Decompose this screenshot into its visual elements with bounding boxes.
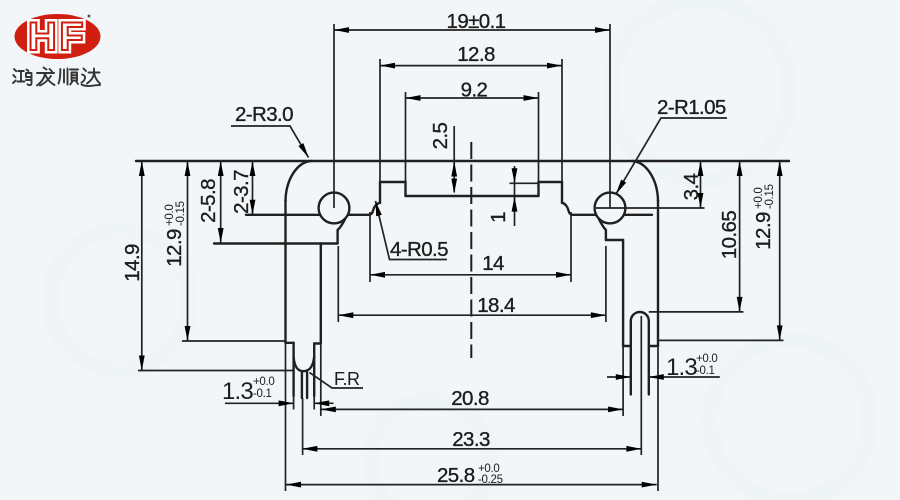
channel mouth right flare [562,203,572,215]
svg-text:1: 1 [487,212,510,223]
svg-text:4-R0.5: 4-R0.5 [390,238,448,261]
svg-text:18.4: 18.4 [477,294,515,317]
10.65 ref [649,311,744,313]
right outer wall [657,200,659,346]
dimension 2-5.8 [197,161,224,243]
left leg inner ext to 20.8 [320,344,322,417]
right boss column step [606,239,623,241]
12.9 right ref [658,339,784,341]
svg-text:2-R1.05: 2-R1.05 [657,96,726,119]
19 ext left to boss center [333,24,335,208]
right leg inner ext to 20.8 [622,346,624,416]
logo ellipse [15,14,101,59]
right leg inner face [622,240,624,346]
dimension 1 [487,166,517,226]
18.4 ext right [605,246,607,322]
svg-text:2-5.8: 2-5.8 [197,179,220,223]
dimension 14 [370,252,571,278]
left boss neck [338,219,345,243]
channel mouth left flare [370,203,380,215]
dimension 9.2 [406,79,539,102]
14 ext left [369,212,371,282]
left foot outer wall [292,343,294,396]
svg-text:2.5: 2.5 [429,122,452,149]
svg-text:2-3.7: 2-3.7 [230,170,253,214]
center dashed line [470,142,472,358]
9.2 ext right [538,92,540,195]
19 ext right to boss center [609,24,611,208]
channel right wall [561,182,563,203]
left boss circle [319,193,350,224]
right leg inner step [623,345,631,347]
right foot slot with dome [631,312,649,395]
3.4 ref [596,207,705,209]
svg-text:F.R: F.R [334,369,360,389]
svg-text:14.9: 14.9 [121,244,144,282]
12.9 left ref [182,340,286,342]
drawing lines [136,161,789,398]
svg-text:2-R3.0: 2-R3.0 [235,103,293,126]
svg-text:-0.15: -0.15 [175,201,187,226]
9.2 ext left [405,92,407,195]
dimension 1.3 right [607,353,720,381]
dimension 2.5 [429,122,457,193]
svg-text:-0.15: -0.15 [764,184,776,209]
dimension 1.3 left [222,376,334,406]
left surface 2-3.7 level [246,214,320,216]
left surface right of boss [348,214,370,216]
channel left ledge [380,182,406,196]
svg-text:-0.25: -0.25 [478,474,503,486]
18.4 ext left [337,246,339,322]
dimension 18.4 [338,294,606,318]
dimension 3.4 [680,161,703,208]
left foot walls ext to 1.3 dim [294,396,315,410]
svg-text:12.9: 12.9 [163,229,186,267]
right surface to corner [624,214,652,216]
14.9 ref foot bottom [138,370,294,372]
right leg outer step [649,345,658,347]
right boss neck [599,219,606,240]
1 dim ledge ext [510,182,539,184]
svg-text:+0.0: +0.0 [253,376,275,388]
label 4-R0.5 [373,200,448,261]
left outer wall [284,200,286,343]
left foot inner step [314,342,321,344]
label F.R [310,369,364,389]
dimension 10.65 [718,161,742,312]
14 ext right [570,212,572,282]
label 2-R1.05 [614,96,727,195]
svg-text:23.3: 23.3 [452,428,490,451]
right slot center ext to 23.3 [640,316,642,455]
left foot outer step [286,342,294,344]
dimension 20.8 [321,387,623,412]
svg-text:20.8: 20.8 [451,387,489,410]
char fa [37,68,55,86]
left leg inner face [320,244,322,344]
svg-text:3.4: 3.4 [680,173,703,200]
svg-text:-0.1: -0.1 [253,388,272,400]
right corner arc R3.0 [633,161,659,201]
svg-text:HF: HF [28,15,86,59]
svg-text:1.3: 1.3 [666,354,697,381]
svg-text:-0.1: -0.1 [696,365,715,377]
channel ceiling [406,195,539,197]
dimension 19±0.1 [334,10,610,33]
extension lines [138,24,784,491]
svg-text:1.3: 1.3 [222,378,253,405]
right boss circle [595,193,626,224]
svg-text:+0.0: +0.0 [696,353,718,365]
svg-text:12.8: 12.8 [457,43,495,66]
logo chinese text 鸿发顺达 [13,68,100,87]
left corner arc R3.0 [286,161,312,201]
svg-text:25.8: 25.8 [437,464,475,487]
left foot center ext to 23.3 [302,398,304,455]
svg-text:14: 14 [482,252,504,275]
dimension 12.9 right [752,161,783,340]
dimension 2-3.7 [230,161,255,215]
char da [82,69,101,87]
top outer surface [136,160,789,162]
left foot inner wall [313,344,315,397]
left boss column step 5.8 ref [214,242,338,244]
svg-text:10.65: 10.65 [718,211,741,259]
right surface left of boss [572,214,597,216]
12.8 ext left [379,59,381,182]
channel right ledge [539,182,563,196]
label 2-R3.0 [231,103,311,159]
svg-text:12.9: 12.9 [752,212,775,250]
dimension 14.9 [121,161,145,371]
right foot walls ext to 1.3 dim [631,370,649,386]
dimension 12.8 [380,43,562,69]
svg-text:19±0.1: 19±0.1 [447,10,506,33]
channel left wall [379,182,381,203]
dimension 12.9 left [163,161,190,341]
left foot slot curve F.R [294,357,315,372]
dimension 25.8 [286,463,657,488]
char shun [59,69,79,85]
char hong [13,69,32,85]
left outer wall ext to 25.8 [285,343,287,491]
12.8 ext right [561,59,563,182]
dimension 23.3 [302,428,641,452]
svg-text:9.2: 9.2 [461,79,488,102]
right outer wall ext to 25.8 [657,346,659,491]
